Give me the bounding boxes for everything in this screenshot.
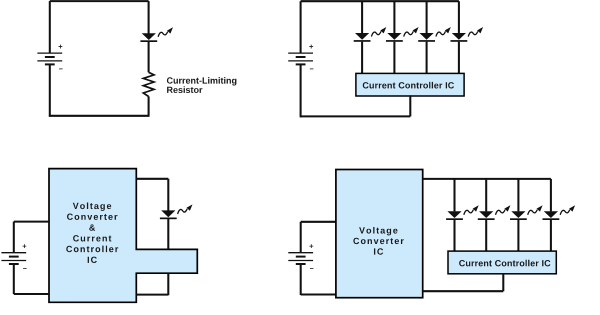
LED D3 [386, 27, 419, 42]
wire [550, 220, 552, 251]
resistor R1 [143, 72, 154, 96]
wire [167, 273, 169, 295]
wire [148, 41, 150, 72]
wire [50, 0, 149, 2]
wire [517, 220, 519, 251]
wire [453, 220, 455, 251]
wire [49, 115, 150, 117]
op-amp U3 : Voltage Converter IC [336, 170, 423, 298]
LED D5 [451, 27, 484, 42]
wire [14, 221, 50, 223]
op-amp U4 : Current Controller IC [448, 251, 556, 274]
wire [423, 178, 551, 180]
LED D1 [140, 27, 173, 42]
wire [13, 264, 15, 294]
wire [301, 115, 411, 117]
wire [300, 264, 302, 295]
wire [393, 42, 395, 74]
wire [14, 293, 50, 295]
wire [361, 42, 363, 74]
wire [300, 222, 302, 253]
wire [49, 64, 51, 116]
battery B3 [1, 244, 26, 269]
LED D9 [510, 205, 543, 220]
wire [300, 1, 302, 53]
LED D8 [478, 205, 511, 220]
wire [13, 222, 15, 253]
wire [167, 179, 169, 211]
battery B2 [288, 45, 313, 70]
op-amp U2 : Voltage Converter & Current Controller IC [49, 169, 197, 303]
wire [426, 1, 428, 33]
op-amp U1 : Current Controller IC [356, 73, 464, 96]
wire [301, 0, 459, 2]
wire [148, 1, 150, 33]
LED D4 [418, 27, 451, 42]
wire [458, 42, 460, 74]
wire [148, 96, 150, 115]
wire [423, 290, 504, 292]
LED D10 [543, 205, 576, 220]
wire [458, 1, 460, 33]
wire [300, 64, 302, 117]
wire [485, 179, 487, 212]
battery B1 [37, 45, 62, 70]
wire [550, 179, 552, 212]
wire [453, 179, 455, 212]
wire [136, 178, 168, 180]
wire [301, 221, 336, 223]
wire [167, 219, 169, 249]
wire [426, 42, 428, 74]
LED D2 [354, 27, 387, 42]
wire [301, 293, 336, 295]
wire [502, 274, 504, 291]
wire [49, 1, 51, 53]
wire [136, 294, 168, 296]
label: Current-Limiting Resistor [167, 77, 237, 93]
wire [485, 220, 487, 251]
LED D6 [160, 204, 193, 219]
wire [361, 1, 363, 33]
LED D7 [446, 205, 479, 220]
wire [393, 1, 395, 33]
wire [409, 95, 411, 116]
battery B4 [288, 244, 313, 269]
wire [517, 179, 519, 212]
